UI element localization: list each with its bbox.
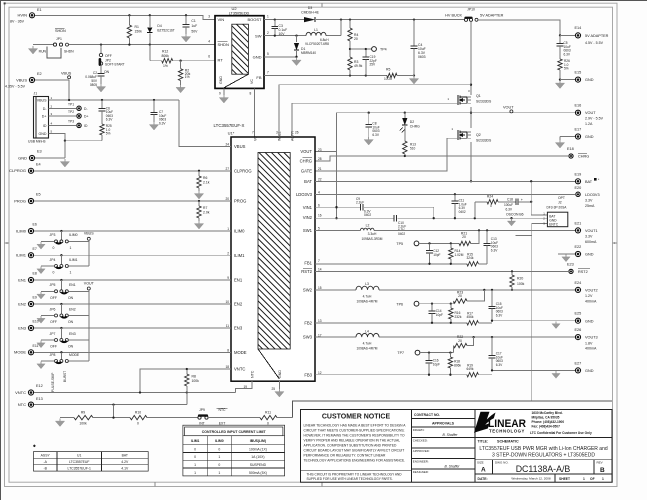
svg-text:SHEET: SHEET xyxy=(559,477,570,481)
svg-text:D2: D2 xyxy=(410,120,414,124)
svg-text:CHRG: CHRG xyxy=(578,155,589,159)
svg-text:C18: C18 xyxy=(507,197,513,201)
svg-text:CMDSH-4E: CMDSH-4E xyxy=(301,11,319,15)
wire JP1 left to ground xyxy=(28,45,53,54)
svg-text:D3: D3 xyxy=(308,6,313,10)
wire GND to E27 xyxy=(491,369,575,378)
inductor L2 xyxy=(360,223,382,241)
svg-text:806k: 806k xyxy=(162,54,170,58)
svg-text:E24: E24 xyxy=(575,281,582,285)
svg-text:ACPR: ACPR xyxy=(291,131,295,141)
wire FB2 net xyxy=(315,322,467,324)
svg-text:PROG: PROG xyxy=(234,199,246,204)
svg-text:EN1: EN1 xyxy=(18,277,27,282)
svg-text:FB: FB xyxy=(256,75,261,80)
svg-text:TP2: TP2 xyxy=(68,110,74,114)
svg-text:150k: 150k xyxy=(135,29,143,33)
svg-text:U2: U2 xyxy=(231,6,237,11)
svg-text:R8: R8 xyxy=(192,375,196,379)
wire WALL pin xyxy=(279,85,471,137)
svg-text:1: 1 xyxy=(218,455,220,459)
wire Q1 gate from ACPR xyxy=(292,102,458,104)
resistor R24 xyxy=(475,195,516,219)
svg-text:R1: R1 xyxy=(135,25,139,29)
svg-text:CHRG: CHRG xyxy=(300,158,312,163)
resistor R15 xyxy=(467,252,488,266)
svg-text:OFF: OFF xyxy=(50,296,57,300)
resistor R2 xyxy=(176,60,191,93)
svg-text:E8: E8 xyxy=(33,272,37,276)
svg-text:0603: 0603 xyxy=(418,55,426,59)
svg-text:E4: E4 xyxy=(36,163,41,167)
resistor R11 xyxy=(260,410,293,425)
svg-text:EN2: EN2 xyxy=(69,307,76,311)
svg-text:6.3V: 6.3V xyxy=(564,52,571,56)
node PULSE-SKIP BURST labels xyxy=(51,371,67,392)
svg-text:D4: D4 xyxy=(157,24,161,28)
wire GND to E22 xyxy=(558,254,575,262)
svg-text:CIRCUIT THAT MEETS CUSTOMER-SU: CIRCUIT THAT MEETS CUSTOMER-SUPPLIED SPE… xyxy=(304,428,405,432)
svg-text:TP3: TP3 xyxy=(68,119,74,123)
resistor R26 xyxy=(558,52,570,80)
node VOUT rail at JP5 xyxy=(84,281,95,361)
svg-text:D+: D+ xyxy=(84,115,88,119)
svg-text:Phone: (408)432-1900: Phone: (408)432-1900 xyxy=(532,420,565,424)
LED D2 CHRG xyxy=(400,113,420,141)
wire JP3 to VBUS rail xyxy=(68,240,88,242)
svg-text:0: 0 xyxy=(218,463,220,467)
svg-text:49.9k: 49.9k xyxy=(354,64,363,68)
svg-text:ON: ON xyxy=(68,296,74,300)
wire EN1 xyxy=(34,279,231,281)
terminal E6 ILIM0 xyxy=(16,223,37,234)
jumper JP1 xyxy=(39,43,75,58)
wire U2 GND pin right xyxy=(264,56,301,66)
terminal E23 RST2 xyxy=(567,263,590,274)
resistor R25 xyxy=(100,112,112,141)
terminal E7 ILIM1 xyxy=(16,247,37,258)
svg-text:WALL: WALL xyxy=(278,131,282,141)
resistor R18 xyxy=(448,353,461,375)
svg-text:SHDN: SHDN xyxy=(55,29,66,33)
svg-text:VBUS: VBUS xyxy=(61,72,72,76)
svg-text:Q2: Q2 xyxy=(476,133,481,137)
svg-text:JP6: JP6 xyxy=(50,307,56,311)
test point TP7 xyxy=(397,350,453,355)
svg-text:EN1: EN1 xyxy=(234,278,243,283)
svg-text:E11: E11 xyxy=(33,344,39,348)
terminal E3 GND xyxy=(18,150,69,168)
svg-text:DWG NO.: DWG NO. xyxy=(495,460,509,464)
wire CLPROG xyxy=(34,170,231,172)
svg-text:D+: D+ xyxy=(42,115,47,119)
svg-text:510: 510 xyxy=(410,147,416,151)
svg-text:TP7: TP7 xyxy=(397,351,404,355)
svg-text:FB3: FB3 xyxy=(304,372,312,377)
node VBUS rail at JP3 xyxy=(84,232,94,266)
svg-text:1%: 1% xyxy=(185,75,190,79)
svg-text:E23: E23 xyxy=(567,263,574,267)
svg-text:E15: E15 xyxy=(575,71,582,75)
svg-text:26: 26 xyxy=(295,131,299,135)
svg-text:E2: E2 xyxy=(37,72,42,76)
table controlled input current limit xyxy=(183,425,285,476)
svg-text:VOUT: VOUT xyxy=(503,105,514,109)
resistor R23 xyxy=(454,290,485,304)
wire FB1 net xyxy=(315,263,467,265)
svg-text:BURST: BURST xyxy=(63,371,67,382)
terminal E2 VBUS xyxy=(5,72,42,89)
svg-text:100k: 100k xyxy=(79,422,87,426)
svg-text:SHDN: SHDN xyxy=(218,42,229,47)
wire VOUT line xyxy=(337,112,579,114)
svg-text:VNTC: VNTC xyxy=(234,367,245,372)
svg-text:400mA: 400mA xyxy=(585,347,597,351)
wire MODE xyxy=(34,351,231,353)
svg-text:2.1k: 2.1k xyxy=(203,180,210,184)
svg-text:JP9: JP9 xyxy=(199,408,205,412)
svg-text:OFF: OFF xyxy=(50,345,57,349)
svg-text:DATE:: DATE: xyxy=(478,477,488,481)
svg-text:1: 1 xyxy=(267,15,269,19)
wire FB net xyxy=(264,74,415,76)
capacitor C10 xyxy=(394,215,406,236)
resistor R20 xyxy=(510,271,525,291)
resistor R4 xyxy=(348,20,359,57)
svg-text:400mA: 400mA xyxy=(585,300,597,304)
resistor R5 xyxy=(384,68,414,81)
wire CHRG net xyxy=(315,155,568,161)
terminal E8 EN1 xyxy=(18,272,37,283)
wire JP5 to VOUT rail xyxy=(68,290,88,292)
resistor R14 xyxy=(449,243,464,263)
svg-text:NTC: NTC xyxy=(251,370,255,378)
svg-text:CLPROG: CLPROG xyxy=(234,168,252,173)
capacitor C11 xyxy=(452,194,467,218)
svg-text:EN3: EN3 xyxy=(234,326,243,331)
wire BOOST rail xyxy=(264,18,466,20)
svg-text:E27: E27 xyxy=(575,361,582,365)
terminal E20 LDO3V3 xyxy=(575,186,600,208)
terminal E15 xyxy=(559,71,594,83)
svg-text:VBUS: VBUS xyxy=(16,77,27,82)
svg-text:VNTC: VNTC xyxy=(15,390,26,395)
svg-text:E17: E17 xyxy=(575,128,582,132)
svg-text:CONTROLLED INPUT CURRENT LIMIT: CONTROLLED INPUT CURRENT LIMIT xyxy=(202,430,267,434)
svg-text:5: 5 xyxy=(267,52,269,56)
svg-text:100uF: 100uF xyxy=(504,203,513,207)
svg-text:E6: E6 xyxy=(33,223,37,227)
wire VNTC to J2 ENTC xyxy=(516,224,548,402)
jumper JP10 xyxy=(445,8,504,22)
svg-text:SHDN: SHDN xyxy=(64,50,74,54)
svg-text:1%: 1% xyxy=(163,64,168,68)
test point TP6 xyxy=(396,301,453,306)
wire LDO3V3 net xyxy=(315,193,575,195)
svg-text:VOUT2: VOUT2 xyxy=(585,289,598,293)
resistor R8 xyxy=(185,368,200,405)
svg-text:1630 McCarthy Blvd.: 1630 McCarthy Blvd. xyxy=(532,411,563,415)
svg-text:1098AS-3R3M: 1098AS-3R3M xyxy=(361,237,382,241)
resistor R1 xyxy=(127,15,142,44)
wire VNTC pin row xyxy=(140,369,231,393)
resistor R16 xyxy=(449,304,462,323)
svg-text:6.3V: 6.3V xyxy=(496,363,503,367)
svg-text:5%: 5% xyxy=(106,132,111,136)
capacitor C15 xyxy=(489,290,504,321)
svg-text:ILIM0: ILIM0 xyxy=(69,233,78,237)
svg-text:3 STEP-DOWN REGULATORS + LT350: 3 STEP-DOWN REGULATORS + LT3505EDD xyxy=(492,453,595,459)
terminal E14 xyxy=(560,26,609,45)
svg-text:VERIFY PROPER AND RELIABLE OPE: VERIFY PROPER AND RELIABLE OPERATION IN … xyxy=(304,438,401,442)
svg-text:10.2k: 10.2k xyxy=(384,77,392,81)
svg-text:LTC3557EUF: LTC3557EUF xyxy=(69,460,89,464)
svg-text:CLPROG: CLPROG xyxy=(9,168,26,173)
svg-text:21: 21 xyxy=(318,167,322,171)
svg-text:VOUT: VOUT xyxy=(84,281,95,285)
svg-text:DRAWN:: DRAWN: xyxy=(413,428,425,432)
wire GND to E25 xyxy=(491,320,575,329)
svg-text:28: 28 xyxy=(318,157,322,161)
svg-text:TP5: TP5 xyxy=(396,242,403,246)
svg-text:3.3uH: 3.3uH xyxy=(368,232,377,236)
svg-text:CIRCUIT BOARD LAYOUT MAY SIGNI: CIRCUIT BOARD LAYOUT MAY SIGNIFICANTLY A… xyxy=(304,449,405,453)
svg-text:GND: GND xyxy=(253,54,262,59)
svg-text:OF: OF xyxy=(590,477,595,481)
svg-text:ON: ON xyxy=(68,345,74,349)
svg-text:NTC: NTC xyxy=(18,402,26,407)
svg-text:GND: GND xyxy=(585,135,594,139)
svg-text:GND: GND xyxy=(585,253,594,257)
svg-text:FB1: FB1 xyxy=(304,261,312,266)
svg-text:1.2V: 1.2V xyxy=(585,294,593,298)
test point TP1 xyxy=(49,102,88,111)
wire 5V adapter net xyxy=(478,20,561,37)
svg-text:BZT52C16T: BZT52C16T xyxy=(157,29,174,33)
svg-text:JP4: JP4 xyxy=(50,258,56,262)
svg-text:GATE: GATE xyxy=(301,168,312,173)
svg-text:1.02M: 1.02M xyxy=(455,253,464,257)
svg-text:600mA: 600mA xyxy=(585,240,597,244)
svg-text:RST2: RST2 xyxy=(578,270,588,274)
test point TP5 xyxy=(396,241,459,246)
svg-text:CHRG: CHRG xyxy=(410,124,420,128)
transistor Q2 xyxy=(451,127,492,143)
svg-text:2: 2 xyxy=(267,31,269,35)
svg-text:B. Shaffer: B. Shaffer xyxy=(442,433,458,437)
svg-text:DESIGNER:: DESIGNER: xyxy=(413,470,429,474)
svg-text:CHECKED:: CHECKED: xyxy=(413,439,428,443)
svg-text:3.3V: 3.3V xyxy=(585,235,593,239)
svg-text:E20: E20 xyxy=(575,186,582,190)
capacitor C8 xyxy=(364,113,380,145)
svg-text:J1: J1 xyxy=(34,92,38,96)
jumper JP7 xyxy=(37,328,76,349)
svg-text:TITLE:: TITLE: xyxy=(478,440,489,444)
customer notice xyxy=(301,413,412,481)
svg-text:Si2333DS: Si2333DS xyxy=(476,100,492,104)
capacitor C19 xyxy=(362,48,376,76)
svg-text:3: 3 xyxy=(276,131,278,135)
svg-text:1: 1 xyxy=(218,471,220,475)
svg-text:L2: L2 xyxy=(366,223,370,227)
resistor R6 xyxy=(194,171,209,199)
capacitor C3 xyxy=(271,20,287,36)
svg-text:BAT: BAT xyxy=(122,454,128,458)
ground U1 GND pin 25 xyxy=(275,381,284,397)
svg-text:R24: R24 xyxy=(487,195,493,199)
svg-text:4.7uH: 4.7uH xyxy=(363,294,372,298)
svg-text:TP4: TP4 xyxy=(380,48,387,52)
title area xyxy=(475,438,612,483)
jumper JP9 xyxy=(198,408,260,425)
capacitor C14 xyxy=(429,304,443,323)
svg-text:E12: E12 xyxy=(36,384,43,388)
svg-text:EN3: EN3 xyxy=(18,325,27,330)
inductor L1 xyxy=(305,28,329,46)
terminal E19 BAT xyxy=(575,172,601,184)
SHDN net label xyxy=(55,29,66,41)
svg-text:JP1: JP1 xyxy=(56,37,62,41)
svg-text:R7: R7 xyxy=(203,206,207,210)
svg-text:L1: L1 xyxy=(314,28,318,32)
title block outline xyxy=(293,401,613,482)
svg-text:R6: R6 xyxy=(203,176,207,180)
svg-text:VOUT1: VOUT1 xyxy=(585,229,598,233)
node VOUT xyxy=(503,105,514,113)
svg-text:ILIM0: ILIM0 xyxy=(234,229,245,234)
svg-text:VOUT: VOUT xyxy=(585,111,596,115)
svg-text:4.5V - 5.5V: 4.5V - 5.5V xyxy=(585,41,604,45)
approvals column xyxy=(412,413,476,474)
wire ILIM0 xyxy=(34,230,231,232)
svg-text:DF3-3P-20SA: DF3-3P-20SA xyxy=(547,205,568,209)
resistor R10 labels xyxy=(135,410,141,425)
svg-text:1.8V: 1.8V xyxy=(585,341,593,345)
svg-text:E3: E3 xyxy=(37,150,42,154)
svg-text:1: 1 xyxy=(194,471,196,475)
diode D1 MBRM140 xyxy=(294,36,316,57)
svg-text:HVIN: HVIN xyxy=(17,13,27,18)
svg-text:1: 1 xyxy=(70,271,72,275)
svg-text:0: 0 xyxy=(194,455,196,459)
capacitor C2 xyxy=(85,65,105,92)
svg-text:FB2: FB2 xyxy=(304,320,312,325)
svg-text:OFF: OFF xyxy=(50,320,57,324)
svg-text:OPT: OPT xyxy=(558,196,565,200)
svg-text:EN2: EN2 xyxy=(18,301,27,306)
svg-text:4.1V: 4.1V xyxy=(121,467,129,471)
svg-text:VOUT3: VOUT3 xyxy=(585,336,598,340)
capacitor C4 xyxy=(411,20,426,76)
svg-text:VC: VC xyxy=(250,79,254,84)
svg-text:ILIM0: ILIM0 xyxy=(215,439,224,443)
svg-text:0: 0 xyxy=(194,447,196,451)
svg-text:USB Mini-B: USB Mini-B xyxy=(28,140,46,144)
svg-text:MODE: MODE xyxy=(14,350,26,355)
terminal E11 MODE xyxy=(14,344,39,355)
wire VIN2 net xyxy=(315,217,547,219)
connector J1 USB Mini-B xyxy=(28,92,53,144)
svg-text:LTC Confidential For Customer: LTC Confidential For Customer Use Only xyxy=(530,431,592,435)
svg-text:3.3V: 3.3V xyxy=(585,199,593,203)
capacitor C7 xyxy=(149,100,166,130)
svg-text:LDO3V3: LDO3V3 xyxy=(585,193,600,197)
terminal E21 VOUT1 xyxy=(575,221,598,244)
svg-text:0: 0 xyxy=(53,271,55,275)
svg-text:OFF: OFF xyxy=(105,54,112,58)
svg-text:TP1: TP1 xyxy=(68,102,74,106)
test point TP2 xyxy=(49,110,89,119)
svg-text:MBRM140: MBRM140 xyxy=(301,51,316,55)
svg-text:1A (10X): 1A (10X) xyxy=(251,455,264,459)
svg-text:R10: R10 xyxy=(135,410,141,414)
svg-text:E19: E19 xyxy=(575,172,582,176)
wire NTC divider row xyxy=(55,415,197,426)
svg-text:APPROVALS: APPROVALS xyxy=(432,422,455,426)
svg-text:LTC3557EUF USB PWR MGR with Li: LTC3557EUF USB PWR MGR with Li-Ion CHARG… xyxy=(479,446,607,452)
svg-text:VBUS: VBUS xyxy=(84,232,94,236)
svg-text:*: * xyxy=(34,444,36,449)
svg-text:JP7: JP7 xyxy=(50,332,56,336)
svg-text:5V ADAPTER: 5V ADAPTER xyxy=(585,34,609,38)
svg-text:B: B xyxy=(600,467,605,474)
svg-text:1: 1 xyxy=(194,463,196,467)
wire ACPR pin xyxy=(291,103,293,137)
wire VOUT drop to VIN xyxy=(315,113,338,220)
jumper JP5 xyxy=(37,280,76,300)
wire FB3 net xyxy=(315,374,467,376)
svg-text:456k: 456k xyxy=(467,315,474,319)
svg-text:806k: 806k xyxy=(454,363,461,367)
svg-text:16: 16 xyxy=(318,214,322,218)
svg-text:100mA (1X): 100mA (1X) xyxy=(249,447,267,451)
svg-text:1uF: 1uF xyxy=(191,24,197,28)
wire U2 VC to U1 VC xyxy=(254,88,256,137)
svg-text:500mA (5X): 500mA (5X) xyxy=(249,471,267,475)
svg-text:4: 4 xyxy=(208,40,210,44)
svg-text:NTC: NTC xyxy=(219,408,227,412)
svg-text:10pF: 10pF xyxy=(433,362,440,366)
svg-text:0: 0 xyxy=(53,246,55,250)
svg-text:0402: 0402 xyxy=(364,213,371,217)
terminal E26 VOUT3 xyxy=(575,328,598,351)
svg-text:VIN: VIN xyxy=(218,17,225,22)
svg-text:JP3: JP3 xyxy=(50,233,56,237)
svg-text:B. Shaffer: B. Shaffer xyxy=(444,464,460,468)
svg-text:ILIM1: ILIM1 xyxy=(16,253,27,258)
capacitor C16 xyxy=(426,353,440,375)
svg-text:ASSY: ASSY xyxy=(41,454,51,458)
resistor R7 xyxy=(194,201,209,229)
svg-text:649k: 649k xyxy=(467,367,474,371)
wire BAT to J2 xyxy=(531,181,547,215)
svg-text:EN2: EN2 xyxy=(234,302,243,307)
svg-text:JP10: JP10 xyxy=(467,8,475,12)
svg-text:PROG: PROG xyxy=(14,198,26,203)
capacitor C18 xyxy=(504,197,532,216)
svg-text:RST2: RST2 xyxy=(301,269,312,274)
jumper JP6 xyxy=(37,304,76,324)
svg-text:Q1: Q1 xyxy=(476,94,481,98)
svg-text:E22: E22 xyxy=(575,245,582,249)
svg-text:E1: E1 xyxy=(37,8,42,12)
svg-text:GND: GND xyxy=(18,155,27,160)
svg-text:1098AS-4R7M: 1098AS-4R7M xyxy=(357,347,378,351)
svg-text:BAT: BAT xyxy=(585,180,593,184)
svg-text:0: 0 xyxy=(137,422,139,426)
connector J2 DF3-3P-20SA xyxy=(543,196,568,227)
